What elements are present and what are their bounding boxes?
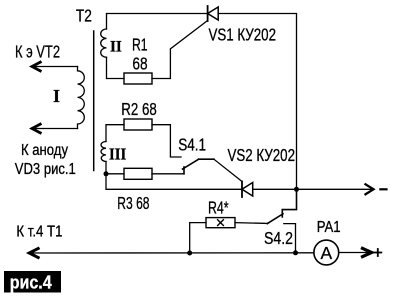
arrow to K anodu VD3	[32, 124, 42, 134]
svg-text:К т.4 Т1: К т.4 Т1	[16, 224, 62, 241]
switch S4.2	[267, 189, 296, 223]
resistor R3	[124, 168, 152, 179]
svg-text:К аноду: К аноду	[21, 142, 68, 159]
arrow: plus output	[361, 248, 372, 258]
wire: top lead of winding I	[33, 66, 78, 68]
svg-text:VS2 КУ202: VS2 КУ202	[228, 145, 296, 165]
ammeter PA1	[314, 240, 339, 265]
arrow: minus output	[365, 184, 374, 195]
node: junction bottom rail right	[293, 250, 298, 255]
svg-text:Т2: Т2	[76, 6, 92, 26]
wire: S4.2 throw to bottom rail	[284, 224, 296, 253]
wire: R4 branch riser	[190, 223, 206, 253]
wire: winding II bottom to R1	[107, 57, 125, 78]
thyristor VS2	[242, 182, 253, 198]
svg-text:III: III	[109, 145, 126, 164]
wire: S4.1 pole to VS2 gate	[214, 159, 242, 181]
winding II	[101, 29, 107, 57]
wire: R2 branch top	[106, 125, 124, 142]
node: junction winding III / R3 / minus line	[104, 171, 109, 176]
svg-text:68: 68	[132, 54, 147, 74]
svg-text:II: II	[110, 38, 122, 55]
wire: R2 to S4.1 upper contact	[152, 125, 181, 157]
svg-text:R1: R1	[132, 35, 148, 55]
winding I	[78, 67, 85, 129]
resistor R1	[124, 73, 152, 84]
arrow to K e VT2	[32, 62, 42, 72]
svg-text:S4.2: S4.2	[264, 228, 293, 248]
svg-text:R2 68: R2 68	[121, 99, 156, 119]
svg-text:R4*: R4*	[208, 197, 229, 217]
svg-text:К э VT2: К э VT2	[15, 42, 60, 62]
node: junction right rail / minus line	[294, 187, 299, 192]
wire: VS2 to minus arrow	[253, 188, 372, 190]
svg-text:VS1 КУ202: VS1 КУ202	[209, 24, 277, 44]
wire: winding II top to top rail	[107, 14, 208, 30]
wire: R4 to S4.2 contact	[235, 222, 267, 225]
wire: R1 to VS1 gate	[152, 21, 208, 79]
wire: bottom rail	[30, 252, 314, 254]
wire: bottom lead of winding I	[33, 128, 78, 130]
wire: junction down to minus line	[106, 174, 242, 190]
label plus	[374, 249, 381, 256]
label minus	[380, 188, 386, 190]
label x inside R4	[218, 220, 224, 226]
svg-text:PA1: PA1	[317, 219, 341, 236]
winding III	[101, 142, 106, 162]
svg-text:рис.4: рис.4	[10, 273, 52, 293]
wire: PA1 to plus arrow	[339, 252, 370, 254]
svg-text:I: I	[53, 86, 60, 106]
thyristor VS1	[208, 6, 219, 21]
transformer core	[93, 31, 95, 171]
wire: junction to R3	[106, 173, 124, 175]
svg-text:A: A	[320, 243, 332, 263]
node: junction bottom rail left	[187, 251, 192, 256]
svg-text:S4.1: S4.1	[178, 134, 206, 154]
switch S4.1	[183, 159, 214, 174]
arrow to K t.4 T1	[29, 248, 39, 258]
resistor R2	[124, 119, 152, 130]
label ris.4	[4, 271, 61, 293]
resistor R4	[206, 218, 235, 228]
wire: winding III bottom	[105, 162, 107, 174]
svg-text:R3 68: R3 68	[117, 193, 149, 213]
wire: VS1 to right rail	[218, 14, 296, 190]
wire: R3 to S4.1 lower contact	[152, 173, 184, 175]
svg-text:VD3 рис.1: VD3 рис.1	[15, 161, 76, 178]
